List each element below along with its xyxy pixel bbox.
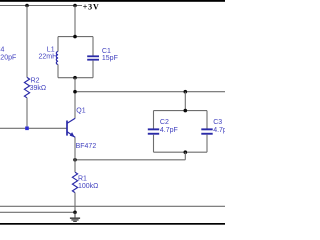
wire tank left upper lead bbox=[57, 37, 59, 52]
wire tank top bbox=[58, 36, 93, 38]
node junction cap box top bbox=[184, 109, 188, 113]
node blue square tap bbox=[25, 127, 29, 131]
wire tank bottom bbox=[58, 77, 93, 79]
svg-text:C3: C3 bbox=[213, 119, 222, 126]
transistor Q1 bbox=[67, 118, 75, 137]
svg-text:20pF: 20pF bbox=[0, 55, 16, 62]
wire R1 bottom lead bbox=[74, 193, 76, 213]
wire emitter to feedback bbox=[75, 159, 185, 161]
wire cap box bottom bbox=[154, 151, 208, 153]
wire base bbox=[0, 127, 67, 129]
wire C2 top lead bbox=[153, 111, 155, 129]
svg-text:R2: R2 bbox=[31, 78, 40, 85]
node junction collector/output bbox=[73, 90, 77, 94]
wire C2 bottom lead bbox=[153, 135, 155, 153]
wire output bbox=[75, 91, 225, 93]
wire collector feed bbox=[74, 78, 76, 119]
capacitor C1 bbox=[87, 55, 99, 57]
svg-text:C2: C2 bbox=[160, 119, 169, 126]
resistor R1 bbox=[72, 172, 77, 192]
node junction tank top bbox=[73, 35, 77, 39]
wire emitter lead bbox=[74, 137, 76, 172]
svg-text:L1: L1 bbox=[47, 47, 55, 54]
wire R2 bottom lead bbox=[26, 98, 28, 129]
svg-text:4.7pF: 4.7pF bbox=[213, 127, 225, 134]
wire long horizontal A bbox=[0, 205, 225, 207]
node junction at tank feed bbox=[73, 4, 77, 8]
wire cap box top bbox=[154, 110, 208, 112]
wire R2 top lead bbox=[26, 6, 28, 78]
wire ground rail bbox=[0, 211, 75, 213]
wire tank left lower lead bbox=[57, 65, 59, 78]
svg-text:39kΩ: 39kΩ bbox=[30, 85, 47, 92]
wire tank right upper lead bbox=[92, 37, 94, 56]
node junction feedback top bbox=[184, 90, 188, 94]
svg-text:22mH: 22mH bbox=[39, 54, 58, 61]
inductor L1 bbox=[56, 52, 58, 65]
wire C3 top lead bbox=[206, 111, 208, 129]
svg-text:15pF: 15pF bbox=[102, 55, 118, 62]
svg-text:100kΩ: 100kΩ bbox=[78, 183, 98, 190]
svg-text:C1: C1 bbox=[102, 48, 111, 55]
svg-text:R1: R1 bbox=[78, 176, 87, 183]
node junction tank bottom bbox=[73, 76, 77, 80]
node junction emitter wire bbox=[73, 158, 77, 162]
capacitor C3 bbox=[201, 128, 212, 130]
capacitor C2 bbox=[148, 128, 159, 130]
svg-text:C4: C4 bbox=[0, 47, 5, 54]
node junction cap box bottom bbox=[184, 150, 188, 154]
wire C3 bottom lead bbox=[206, 135, 208, 153]
wire feedback drop bbox=[184, 92, 186, 111]
node junction at R2 top bbox=[25, 4, 29, 8]
wire VCC rail bbox=[0, 5, 82, 7]
svg-text:4.7pF: 4.7pF bbox=[160, 127, 178, 134]
ground bbox=[70, 212, 80, 221]
wire tank feed bbox=[74, 6, 76, 37]
wire tank right lower lead bbox=[92, 61, 94, 78]
svg-text:+3V: +3V bbox=[83, 3, 100, 12]
svg-text:BF472: BF472 bbox=[76, 143, 97, 150]
svg-text:Q1: Q1 bbox=[76, 108, 85, 115]
node junction ground bbox=[73, 211, 77, 215]
wire feedback rise bbox=[184, 152, 186, 160]
resistor R2 bbox=[24, 77, 29, 97]
